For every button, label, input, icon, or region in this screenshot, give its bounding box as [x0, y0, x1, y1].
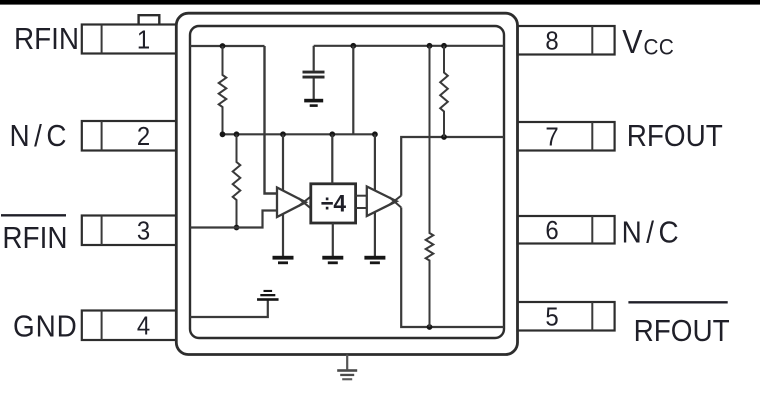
svg-text:2: 2 [137, 122, 150, 151]
svg-text:GND: GND [13, 309, 78, 344]
svg-text:1: 1 [137, 25, 150, 54]
svg-text:RFIN: RFIN [2, 221, 67, 256]
svg-text:RFOUT: RFOUT [634, 314, 730, 349]
svg-text:RFIN: RFIN [14, 22, 79, 57]
svg-text:3: 3 [137, 217, 150, 246]
svg-text:4: 4 [137, 312, 150, 341]
svg-text:V: V [622, 23, 642, 60]
svg-text:8: 8 [545, 27, 558, 56]
svg-text:N/C: N/C [622, 215, 684, 250]
svg-text:RFOUT: RFOUT [627, 118, 723, 153]
svg-text:N/C: N/C [10, 119, 72, 154]
svg-text:6: 6 [545, 216, 558, 245]
svg-text:5: 5 [545, 303, 558, 332]
svg-text:CC: CC [644, 34, 675, 60]
svg-text:÷4: ÷4 [321, 190, 346, 217]
svg-text:7: 7 [545, 123, 558, 152]
